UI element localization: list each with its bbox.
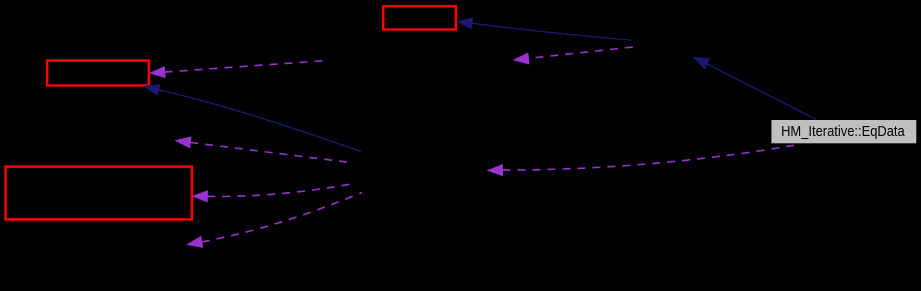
edge: blue inheritance arrow from grey box up-left	[694, 57, 816, 119]
edge: purple dashed arrow into lower-left red box	[193, 183, 355, 202]
edge: blue inheritance arrow to top red box	[458, 18, 632, 40]
svg-text:HM_Iterative::EqData: HM_Iterative::EqData	[781, 124, 905, 140]
edge: purple dashed arrow fan 3 (to invisible node, bottom-left)	[188, 193, 363, 248]
edge: blue inheritance arrow to upper-left red box corner	[145, 85, 362, 152]
edge: purple dashed curved arrow from grey box to centre invisible node	[488, 145, 798, 176]
node: HM_Iterative::EqData (current node, grey fill)	[771, 120, 916, 143]
node: upper-left red box (truncated class)	[47, 61, 149, 86]
edge: purple dashed arrow fan 1 (to invisible node, mid-left)	[176, 137, 351, 163]
node: lower-left red box (truncated class)	[6, 167, 192, 220]
edge: purple dashed arrow at top middle	[514, 47, 633, 64]
edge: purple dashed arrow into upper-left red box	[150, 60, 328, 77]
node: top red box (truncated class)	[383, 6, 456, 29]
